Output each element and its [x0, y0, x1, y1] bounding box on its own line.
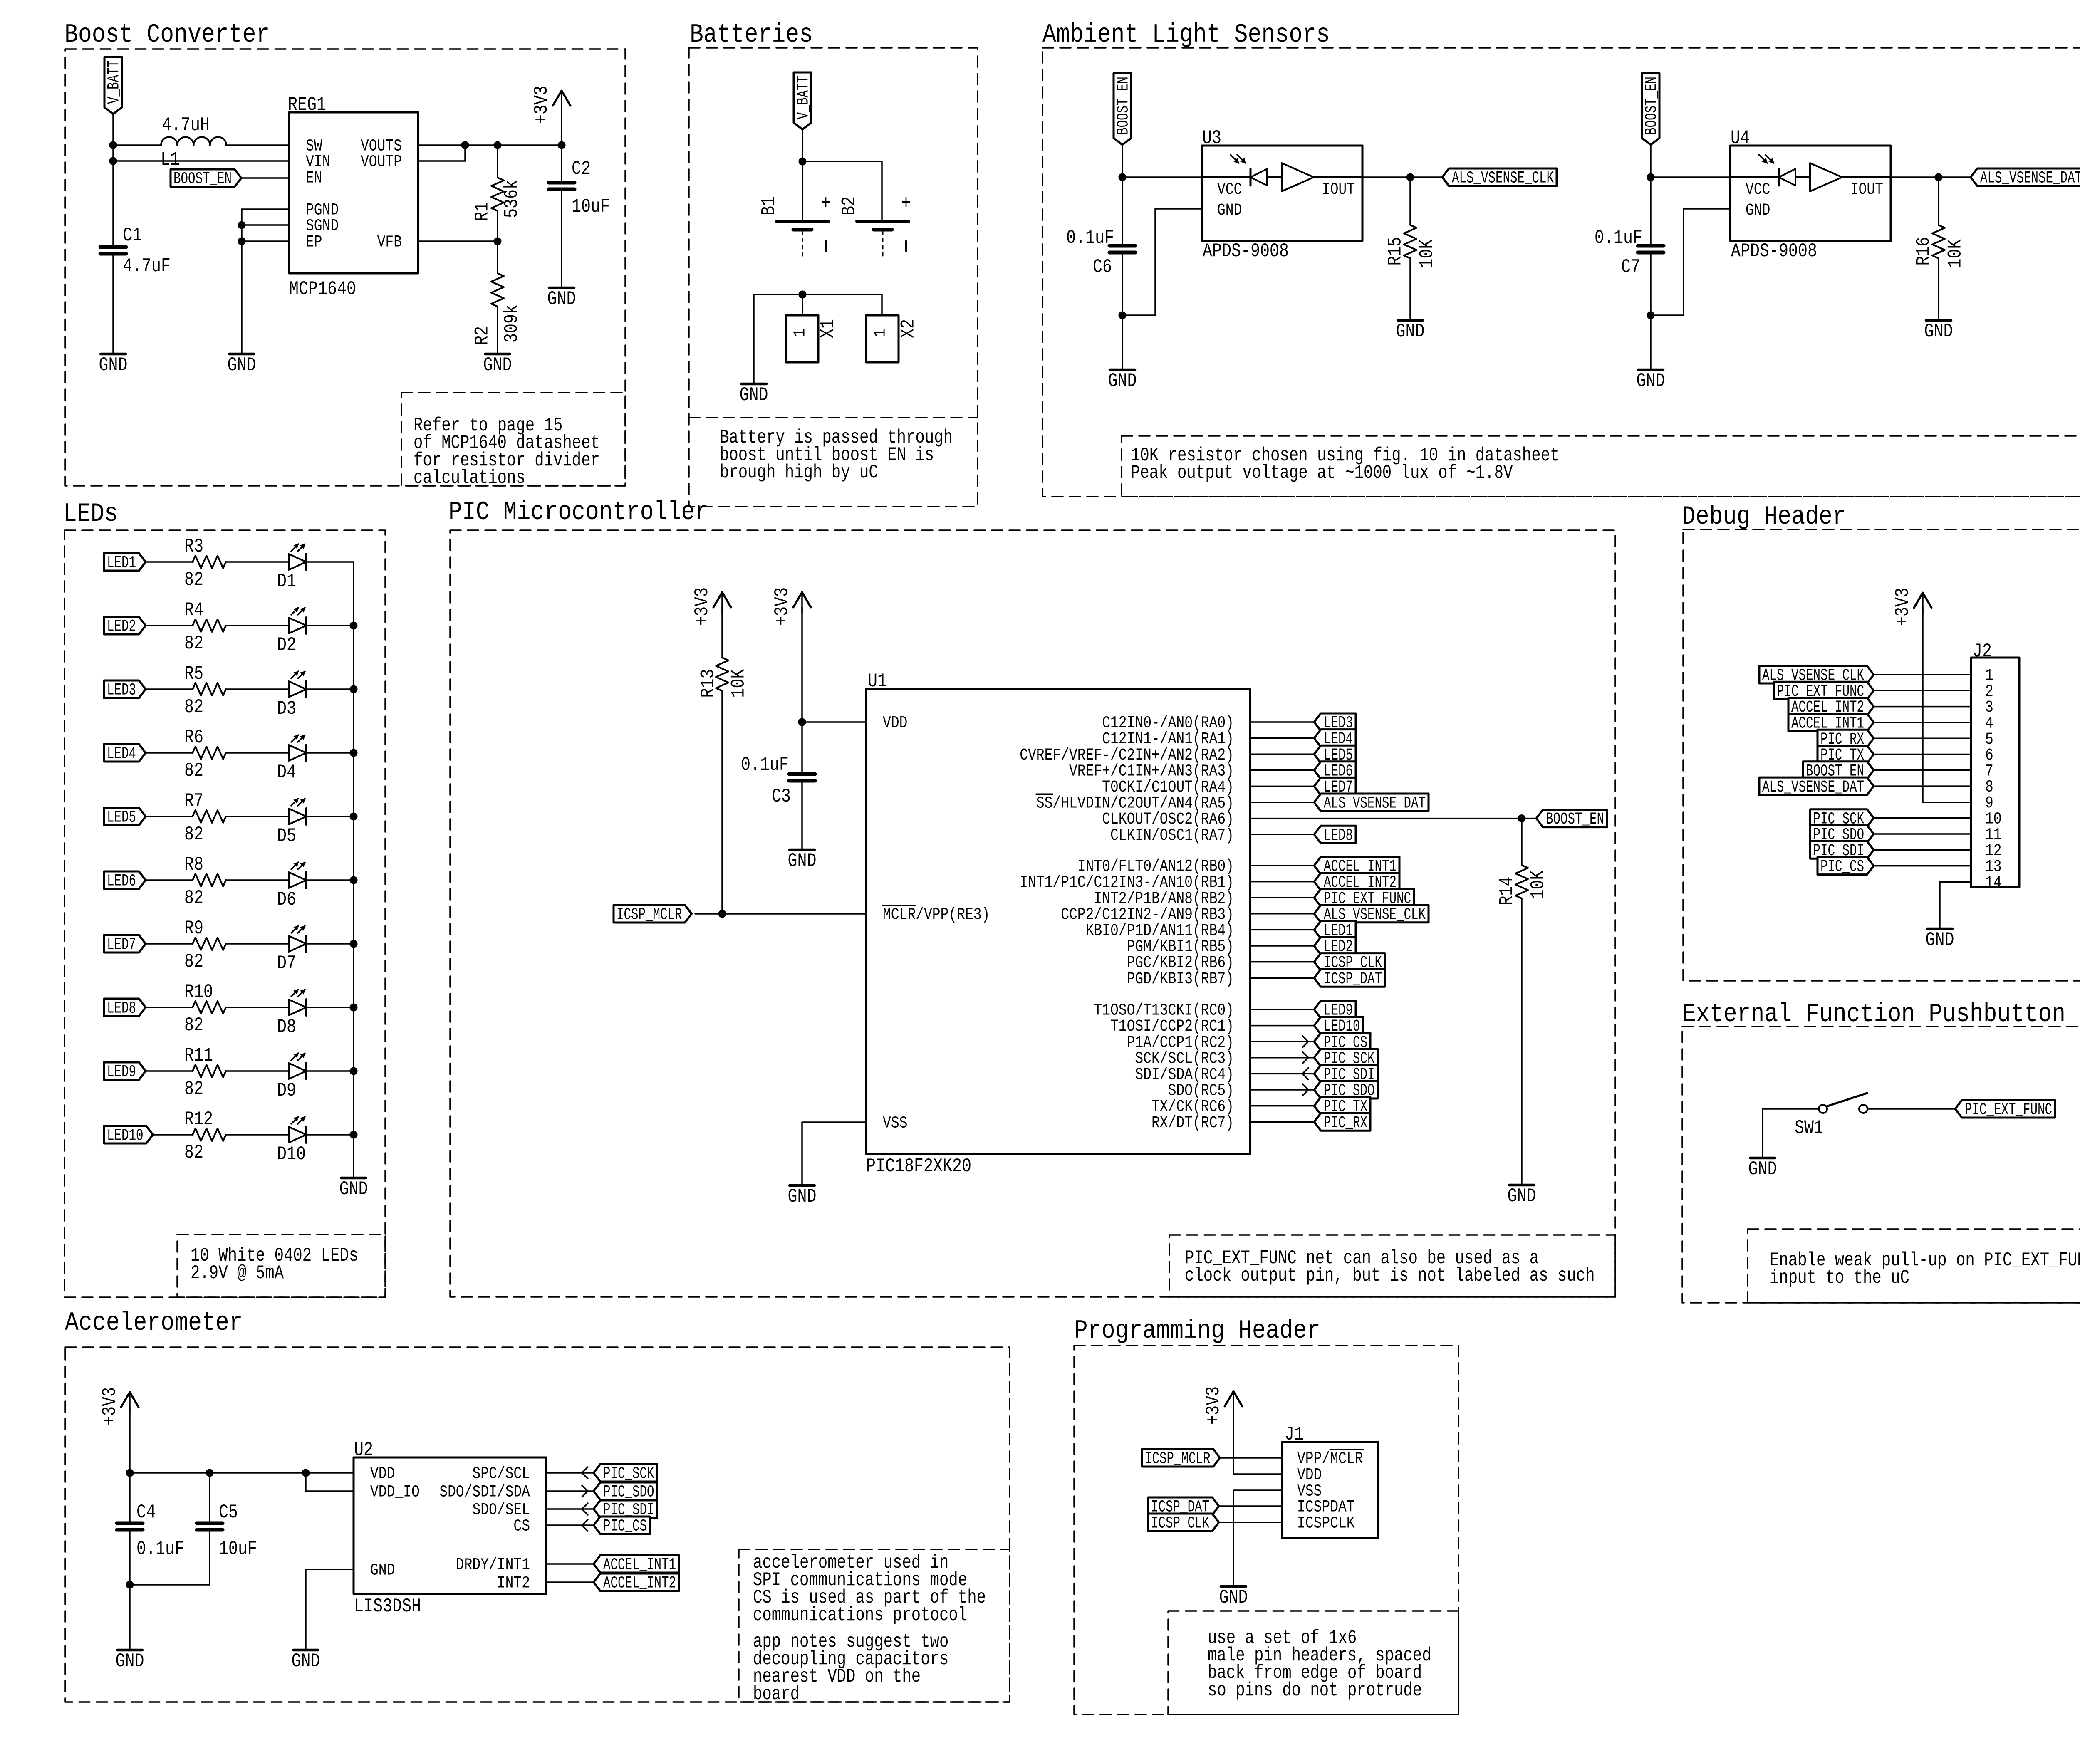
junction: [350, 940, 357, 948]
wire pin 9: [1923, 802, 1971, 803]
LED D2: [289, 608, 306, 634]
resistor R8: [184, 854, 226, 909]
junction: [1647, 312, 1654, 319]
note box ALS: [1122, 436, 2080, 497]
+3V3 power accel: [99, 1387, 139, 1425]
svg-text:U3: U3: [1202, 127, 1221, 149]
svg-text:GND: GND: [1926, 929, 1954, 951]
capacitor C5: [197, 1502, 257, 1560]
net flag LED10: [104, 1126, 153, 1145]
wire +3V3 to R13: [721, 607, 723, 658]
svg-text:ALS_VSENSE_DAT: ALS_VSENSE_DAT: [1762, 778, 1864, 797]
svg-text:B1: B1: [758, 196, 780, 215]
net flag PIC_EXT_FUNC: [1955, 1100, 2055, 1120]
wire pin 14 to GND: [1940, 882, 1971, 929]
net flag PIC_SDO: [1314, 1081, 1378, 1101]
net flag PIC_TX: [1818, 746, 1874, 765]
svg-text:GND: GND: [788, 850, 817, 872]
svg-text:DRDY/INT1: DRDY/INT1: [456, 1556, 530, 1575]
wire GND return: [1122, 209, 1202, 315]
svg-text:D4: D4: [277, 762, 296, 783]
wire pin stub: [1250, 737, 1314, 739]
wire flag to resistor: [146, 688, 193, 690]
wire VFB: [418, 240, 498, 242]
wire C5 return: [130, 1584, 210, 1586]
note text ALS: [1131, 445, 1559, 484]
net flag LED1: [1314, 921, 1356, 940]
svg-text:SDO/SDI/SDA: SDO/SDI/SDA: [439, 1483, 530, 1502]
svg-text:Debug Header: Debug Header: [1682, 502, 1846, 532]
wire flag to resistor: [146, 816, 193, 817]
svg-text:PIC18F2XK20: PIC18F2XK20: [866, 1155, 971, 1177]
svg-text:LED3: LED3: [107, 681, 136, 700]
wire resistor to LED: [226, 625, 289, 626]
svg-text:APDS-9008: APDS-9008: [1203, 240, 1289, 262]
net flag LED2: [1314, 937, 1356, 957]
svg-text:calculations: calculations: [414, 467, 525, 489]
wire C5 down: [209, 1532, 210, 1585]
wire pin stub: [546, 1581, 594, 1583]
svg-text:R9: R9: [184, 918, 203, 939]
wire to X1: [802, 294, 803, 315]
wire IOUT: [1362, 176, 1410, 178]
svg-text:LED9: LED9: [107, 1063, 136, 1082]
svg-text:EP: EP: [306, 233, 322, 252]
svg-text:ACCEL_INT2: ACCEL_INT2: [603, 1574, 676, 1593]
wire pin stub: [1250, 1025, 1314, 1027]
wire pin stub: [1250, 721, 1314, 723]
wire pin stub: [1250, 961, 1314, 963]
inductor L1: [161, 114, 226, 171]
note box accelerometer: [739, 1549, 1010, 1702]
IC U4 APDS-9008: [1730, 127, 1891, 262]
wire to J2: [1874, 769, 1971, 771]
svg-text:BOOST_EN: BOOST_EN: [1643, 77, 1662, 135]
section box PIC Microcontroller: [450, 530, 1615, 1297]
net flag ICSP_CLK: [1148, 1514, 1219, 1533]
svg-text:VFB: VFB: [377, 233, 402, 252]
LED D10: [289, 1117, 306, 1143]
svg-text:309k: 309k: [501, 304, 523, 343]
wire ICSPCLK: [1219, 1522, 1282, 1523]
svg-text:ALS_VSENSE_CLK: ALS_VSENSE_CLK: [1452, 169, 1554, 188]
junction: [126, 1469, 134, 1477]
note text boost: [414, 415, 600, 489]
wire +3V3 to VDD: [801, 607, 803, 722]
net flag ALS_VSENSE_DAT: [1314, 794, 1429, 813]
IC U3 APDS-9008: [1202, 127, 1362, 262]
wire pin stub: [1250, 802, 1314, 803]
wire down to GND: [1762, 1109, 1763, 1158]
ground: [1924, 320, 1953, 342]
wire pin stub: [1250, 977, 1314, 979]
wire resistor to LED: [226, 688, 289, 690]
net flag LED1: [104, 553, 146, 573]
net flag ICSP_MCLR: [614, 905, 692, 925]
ground: [116, 1650, 144, 1672]
wire VDD: [130, 1472, 354, 1474]
svg-text:ICSPCLK: ICSPCLK: [1297, 1514, 1355, 1533]
wire GND to SW1: [1763, 1108, 1819, 1110]
wire LED to bus: [306, 1134, 354, 1136]
junction: [1406, 173, 1414, 181]
svg-text:C6: C6: [1093, 256, 1112, 278]
svg-text:D1: D1: [277, 571, 296, 592]
junction: [1119, 173, 1126, 181]
svg-text:V_BATT: V_BATT: [105, 60, 124, 104]
svg-text:82: 82: [184, 824, 203, 845]
junction: [350, 622, 357, 629]
wire MCLR: [695, 913, 866, 915]
svg-text:LED7: LED7: [107, 936, 136, 955]
capacitor C6: [1066, 227, 1135, 278]
svg-text:1: 1: [872, 329, 890, 337]
svg-text:D2: D2: [277, 634, 296, 656]
wire +3V3 down: [129, 1407, 131, 1523]
net flag LED6: [1314, 762, 1356, 781]
svg-text:GND: GND: [1508, 1185, 1536, 1207]
svg-text:Accelerometer: Accelerometer: [65, 1308, 243, 1338]
svg-text:GND: GND: [370, 1561, 395, 1580]
wire pin stub: [546, 1524, 594, 1526]
svg-text:GND: GND: [292, 1650, 320, 1672]
net flag LED5: [104, 808, 146, 827]
svg-text:GND: GND: [788, 1186, 817, 1207]
net flag ICSP_DAT: [1148, 1497, 1219, 1517]
wire VSS: [802, 1121, 866, 1123]
wire BOOST_EN down: [1122, 146, 1123, 177]
wire pin stub: [1250, 881, 1314, 883]
svg-text:PIC Microcontroller: PIC Microcontroller: [448, 497, 708, 527]
junction: [238, 221, 245, 229]
wire LED to bus: [306, 879, 354, 881]
junction: [109, 157, 117, 165]
svg-text:PIC_RX: PIC_RX: [1324, 1114, 1367, 1133]
svg-text:GND: GND: [1748, 1158, 1777, 1180]
net flag LED7: [104, 935, 146, 955]
svg-text:GND: GND: [740, 384, 768, 406]
svg-text:82: 82: [184, 696, 203, 718]
ground: [99, 354, 128, 376]
svg-text:Ambient Light Sensors: Ambient Light Sensors: [1042, 20, 1330, 49]
resistor R1: [472, 178, 523, 221]
svg-text:REG1: REG1: [288, 94, 326, 116]
svg-text:IOUT: IOUT: [1850, 181, 1883, 199]
ground: [1396, 320, 1425, 342]
net flag LED8: [104, 999, 146, 1018]
net flag ALS_VSENSE_DAT: [1759, 777, 1874, 797]
resistor R5: [184, 663, 226, 718]
net flag BOOST_EN: [1536, 810, 1607, 829]
svg-text:BOOST_EN: BOOST_EN: [1546, 810, 1604, 829]
LED D1: [289, 544, 306, 570]
net flag ACCEL_INT1: [1788, 714, 1874, 733]
switch SW1: [1795, 1093, 1867, 1139]
capacitor C4: [117, 1502, 184, 1560]
svg-text:10K: 10K: [1945, 239, 1966, 268]
junction: [799, 158, 806, 165]
wire VSS to GND: [1233, 1490, 1282, 1586]
junction: [206, 1469, 213, 1477]
battery holder X2: [866, 315, 919, 362]
net flag PIC_SDI: [1314, 1065, 1378, 1084]
svg-text:R12: R12: [184, 1108, 213, 1130]
svg-text:LED6: LED6: [107, 872, 136, 891]
direction arrow: [1302, 1052, 1308, 1064]
net flag LED9: [104, 1062, 146, 1082]
wire flag to resistor: [146, 1007, 193, 1008]
svg-text:communications protocol: communications protocol: [753, 1604, 967, 1626]
net flag PIC_EXT_FUNC: [1774, 682, 1874, 701]
junction: [350, 1067, 357, 1075]
wire flag to resistor: [146, 943, 193, 945]
wire VCC: [1122, 176, 1202, 178]
svg-text:R8: R8: [184, 854, 203, 876]
svg-text:R14: R14: [1496, 877, 1518, 906]
wire pin stub: [546, 1508, 594, 1510]
ground: [1748, 1158, 1777, 1180]
svg-text:LED8: LED8: [1324, 826, 1353, 845]
ground: [788, 850, 817, 872]
svg-text:MCP1640: MCP1640: [289, 278, 356, 300]
wire R13 to MCLR: [721, 691, 723, 914]
net flag LED6: [104, 871, 146, 891]
svg-text:PIC_CS: PIC_CS: [1820, 858, 1864, 876]
wire LED to bus: [306, 1070, 354, 1072]
junction: [350, 1131, 357, 1138]
LED D4: [289, 735, 306, 761]
svg-text:C4: C4: [136, 1502, 156, 1523]
svg-text:GND: GND: [1637, 370, 1665, 392]
svg-text:VCC: VCC: [1217, 181, 1242, 199]
svg-text:R2: R2: [472, 326, 493, 345]
svg-text:X2: X2: [898, 319, 919, 338]
svg-text:External Function Pushbutton: External Function Pushbutton: [1682, 1000, 2065, 1029]
svg-text:10uF: 10uF: [572, 196, 610, 218]
note box LEDs: [177, 1235, 385, 1297]
wire pin stub: [1250, 945, 1314, 947]
net flag BOOST_EN U4: [1642, 73, 1662, 145]
svg-text:J2: J2: [1973, 641, 1992, 662]
svg-text:ICSP_CLK: ICSP_CLK: [1151, 1514, 1209, 1533]
wire resistor to LED: [226, 1134, 289, 1136]
svg-text:D5: D5: [277, 825, 296, 847]
svg-text:D8: D8: [277, 1016, 296, 1038]
wire resistor to LED: [226, 561, 289, 563]
net flag PIC_SDI: [594, 1500, 657, 1520]
net flag V_BATT: [104, 57, 124, 114]
wire to C5: [209, 1473, 210, 1523]
junction: [1119, 312, 1126, 319]
net flag PIC_SDO: [1810, 825, 1874, 845]
junction: [350, 749, 357, 757]
wire to B2: [802, 161, 882, 221]
net flag PIC_RX: [1314, 1113, 1370, 1133]
direction arrow: [1302, 1068, 1308, 1079]
wire VSS down: [801, 1122, 803, 1185]
wire to X2: [881, 294, 883, 315]
wire to J2: [1874, 833, 1971, 835]
svg-text:GND: GND: [1924, 321, 1953, 342]
svg-text:2.9V @ 5mA: 2.9V @ 5mA: [191, 1262, 284, 1284]
wire R1 to VFB: [497, 211, 498, 241]
svg-text:C2: C2: [572, 158, 591, 180]
wire to GND: [753, 294, 755, 384]
wire BOOST_EN from RA6: [1250, 818, 1522, 819]
ground: [292, 1650, 320, 1672]
svg-text:VOUTP: VOUTP: [361, 153, 402, 172]
net flag LED9: [1314, 1001, 1356, 1020]
c2: [549, 183, 574, 189]
svg-text:0.1uF: 0.1uF: [136, 1538, 184, 1560]
wire LED to bus: [306, 943, 354, 945]
junction: [350, 685, 357, 693]
svg-text:0.1uF: 0.1uF: [1595, 227, 1642, 249]
net flag PIC_CS: [1314, 1033, 1370, 1052]
+3V3 power debug: [1892, 588, 1931, 626]
resistor R11: [184, 1045, 226, 1100]
wire C2 to GND: [561, 192, 562, 288]
wire to L1: [113, 144, 161, 146]
net flag LED4: [1314, 730, 1356, 749]
svg-text:BOOST_EN: BOOST_EN: [1114, 77, 1133, 135]
wire pin stub: [1250, 1105, 1314, 1107]
+3V3 power R13: [691, 587, 731, 626]
ground: [1637, 370, 1665, 392]
svg-text:C7: C7: [1621, 256, 1640, 278]
svg-text:LIS3DSH: LIS3DSH: [354, 1596, 421, 1617]
net flag PIC_SDO: [594, 1482, 657, 1502]
wire to J2: [1874, 785, 1971, 787]
net flag LED4: [104, 744, 146, 764]
ground: [788, 1185, 817, 1207]
svg-text:so pins do not protrude: so pins do not protrude: [1208, 1680, 1422, 1701]
net flag LED8: [1314, 826, 1356, 845]
junction: [558, 141, 565, 149]
svg-text:+3V3: +3V3: [771, 587, 793, 626]
svg-text:10K: 10K: [1528, 870, 1549, 899]
wire flag to resistor: [146, 625, 193, 626]
ground: [1108, 370, 1137, 392]
svg-text:82: 82: [184, 1078, 203, 1100]
svg-text:PGD/KBI3(RB7): PGD/KBI3(RB7): [1127, 970, 1234, 989]
IC REG1 MCP1640: [288, 94, 418, 300]
net flag ALS_VSENSE_CLK: [1759, 666, 1874, 685]
resistor R14: [1496, 865, 1549, 906]
wire to resistor: [1409, 177, 1411, 225]
junction: [461, 141, 469, 149]
LED D3: [289, 671, 306, 698]
wire flag to resistor: [146, 752, 193, 754]
svg-text:+: +: [901, 193, 911, 214]
wire to J2: [1874, 754, 1971, 755]
svg-text:U4: U4: [1731, 127, 1750, 149]
wire pin stub: [1250, 897, 1314, 898]
U1 right pin names: [1020, 714, 1234, 1133]
wire +3V3 to pin 9: [1922, 608, 1924, 802]
svg-text:82: 82: [184, 1142, 203, 1163]
junction: [494, 238, 501, 245]
ground: [339, 1178, 368, 1200]
direction arrow: [582, 1467, 588, 1479]
svg-text:ICSP_DAT: ICSP_DAT: [1324, 970, 1382, 989]
net flag PIC_CS: [1818, 857, 1874, 877]
wire SGND: [242, 224, 289, 226]
svg-text:R16: R16: [1913, 237, 1935, 266]
connector J1: [1282, 1424, 1378, 1538]
svg-text:R1: R1: [472, 202, 493, 221]
C5: [197, 1523, 223, 1530]
wire SW1 to flag: [1867, 1108, 1955, 1110]
wire to J2: [1874, 722, 1971, 723]
wire IOUT: [1891, 176, 1939, 178]
capacitor C1: [100, 225, 171, 277]
wire C4 to GND: [129, 1532, 131, 1650]
net flag BOOST_EN U3: [1114, 73, 1133, 145]
wire to R1: [497, 145, 498, 178]
wire pin stub: [546, 1490, 594, 1492]
wire to flag: [1939, 176, 1971, 178]
wire VDD: [802, 721, 866, 723]
note text PIC: [1185, 1247, 1595, 1287]
junction: [1518, 815, 1525, 822]
ground: [228, 354, 256, 376]
svg-text:LED1: LED1: [107, 554, 136, 573]
svg-text:82: 82: [184, 887, 203, 909]
connector J2: [1971, 641, 2019, 893]
wire LED to bus: [306, 752, 354, 754]
wire junction to flag: [1522, 818, 1536, 819]
net flag PIC_RX: [1818, 730, 1874, 749]
svg-text:+: +: [821, 193, 831, 214]
wire pin stub: [546, 1563, 594, 1565]
svg-text:INT2: INT2: [497, 1574, 530, 1593]
capacitor C1 plates: [100, 247, 126, 254]
svg-text:Peak output voltage at ~1000 l: Peak output voltage at ~1000 lux of ~1.8…: [1131, 462, 1513, 484]
svg-text:RX/DT(RC7): RX/DT(RC7): [1151, 1114, 1234, 1133]
wire +3V3: [561, 106, 562, 145]
svg-text:GND: GND: [1108, 370, 1137, 392]
svg-text:4.7uH: 4.7uH: [162, 114, 210, 136]
wire resistor to LED: [226, 1070, 289, 1072]
wire to GND: [1409, 260, 1411, 320]
wire to J2: [1874, 706, 1971, 708]
note text programming header: [1208, 1627, 1431, 1701]
section box Ambient Light Sensors: [1042, 48, 2080, 497]
svg-text:board: board: [753, 1683, 800, 1705]
wire pin stub: [1250, 1121, 1314, 1123]
svg-text:X1: X1: [817, 319, 839, 338]
svg-text:R6: R6: [184, 727, 203, 748]
junction: [302, 1469, 310, 1477]
svg-text:+3V3: +3V3: [1203, 1386, 1224, 1425]
C4: [117, 1523, 143, 1530]
wire resistor to LED: [226, 943, 289, 945]
wire MCLR: [1222, 1457, 1282, 1459]
battery B2: [839, 193, 911, 258]
junction: [238, 238, 245, 245]
note divider batteries: [689, 417, 978, 418]
svg-text:D9: D9: [277, 1080, 296, 1101]
resistor R13: [698, 658, 750, 698]
svg-text:GND: GND: [339, 1178, 368, 1200]
svg-text:C3: C3: [772, 786, 791, 807]
C3: [789, 774, 815, 781]
resistor R10: [184, 981, 226, 1036]
svg-text:536k: 536k: [501, 180, 523, 218]
wire VOUTP: [418, 145, 465, 161]
wire to J2: [1874, 817, 1971, 819]
